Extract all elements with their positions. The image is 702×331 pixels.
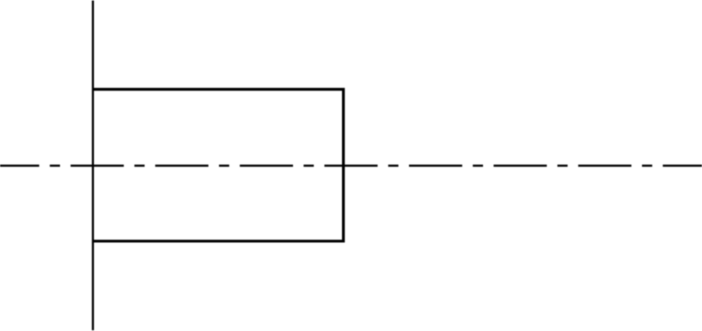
vertical line (datum/axis line)	[92, 1, 94, 331]
rectangle (part outline, open left side on datum line)	[92, 89, 343, 241]
centerline (horizontal dash-dot chain line)	[0, 165, 702, 167]
